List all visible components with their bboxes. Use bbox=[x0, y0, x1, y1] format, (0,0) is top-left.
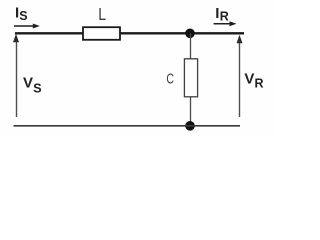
current arrow IR bbox=[214, 21, 237, 26]
label VS bbox=[23, 75, 42, 96]
node top junction bbox=[185, 29, 195, 39]
label C bbox=[166, 71, 174, 87]
label VR bbox=[244, 71, 263, 91]
label IS bbox=[15, 5, 28, 24]
current arrow IS bbox=[14, 24, 40, 29]
svg-text:R: R bbox=[255, 77, 264, 91]
svg-text:I: I bbox=[215, 5, 219, 22]
node bottom junction bbox=[185, 121, 195, 131]
inductor L bbox=[83, 27, 120, 40]
svg-text:V: V bbox=[23, 75, 33, 92]
svg-text:R: R bbox=[220, 9, 229, 23]
label L bbox=[98, 4, 106, 24]
voltage arrow VS bbox=[13, 34, 19, 117]
svg-text:V: V bbox=[244, 71, 254, 88]
capacitor C bbox=[184, 59, 197, 97]
wire capacitor top lead bbox=[190, 33, 192, 59]
voltage arrow VR bbox=[237, 35, 243, 117]
label IR bbox=[215, 5, 229, 24]
svg-text:C: C bbox=[166, 71, 174, 87]
svg-text:L: L bbox=[98, 4, 106, 24]
wire top horizontal bbox=[15, 32, 244, 34]
svg-text:S: S bbox=[33, 81, 41, 95]
svg-text:S: S bbox=[19, 9, 27, 23]
wire bottom horizontal bbox=[14, 125, 241, 127]
wire capacitor bottom lead bbox=[190, 97, 192, 126]
